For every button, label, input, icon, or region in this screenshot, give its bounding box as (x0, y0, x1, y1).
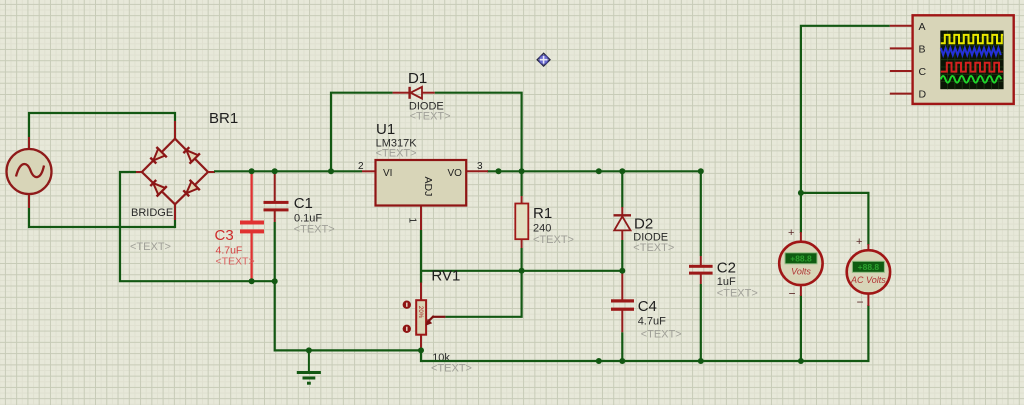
capacitor C1 (264, 171, 289, 281)
junction node rail a (596, 168, 602, 174)
diode D2 (614, 171, 632, 270)
diode D1 (393, 87, 435, 99)
wire bottom rail (421, 305, 868, 361)
junction bottom rail a (596, 358, 602, 364)
svg-text:VI: VI (383, 168, 392, 179)
svg-text:<TEXT>: <TEXT> (431, 363, 472, 375)
wire ADJ pin down (420, 230, 422, 283)
svg-text:−: − (789, 287, 796, 301)
bridge diode bottom-left (150, 180, 167, 197)
svg-text:<TEXT>: <TEXT> (294, 224, 335, 236)
wire D1 top rail left branch (331, 93, 393, 172)
svg-text:−: − (857, 295, 864, 309)
junction C2 bottom (698, 358, 704, 364)
svg-text:C: C (919, 66, 927, 78)
svg-text:1: 1 (407, 218, 418, 224)
svg-text:<TEXT>: <TEXT> (130, 241, 171, 253)
svg-text:<TEXT>: <TEXT> (216, 256, 255, 268)
junction D2 bottom (619, 268, 625, 274)
svg-text:B: B (919, 43, 926, 55)
svg-text:D2: D2 (634, 216, 653, 233)
svg-text:C3: C3 (215, 227, 234, 244)
svg-text:<TEXT>: <TEXT> (717, 288, 758, 300)
junction pot bottom (418, 347, 424, 353)
regulator U1 LM317K (362, 160, 488, 231)
svg-text:U1: U1 (376, 121, 395, 138)
wire bottom-left from source to bridge bottom (29, 194, 175, 227)
junction C4 bottom (619, 358, 625, 364)
svg-text:D: D (919, 89, 927, 101)
junction C2 corner (698, 168, 704, 174)
svg-text:2: 2 (358, 161, 364, 172)
wire top-left from source to bridge top (29, 113, 175, 150)
svg-text:+: + (856, 236, 862, 248)
origin marker (537, 53, 550, 66)
bridge diode top-left (150, 147, 167, 164)
svg-text:C2: C2 (717, 260, 736, 277)
bridge diode top-right (183, 147, 200, 164)
junction D2 top (619, 168, 625, 174)
svg-text:Volts: Volts (791, 267, 811, 277)
wire AC voltmeter branch (801, 193, 869, 245)
resistor R1 (515, 196, 528, 248)
svg-text:+88.8: +88.8 (790, 254, 812, 264)
ground symbol (297, 350, 321, 383)
wire wiper to adj rail (445, 271, 521, 317)
svg-text:RV1: RV1 (431, 268, 460, 285)
bridge diode bottom-right (183, 180, 200, 197)
svg-text:A: A (919, 21, 926, 33)
junction C1 bottom (272, 278, 278, 284)
junction D1 branch (328, 168, 334, 174)
AC source V1 (7, 137, 52, 208)
svg-text:<TEXT>: <TEXT> (376, 148, 417, 160)
capacitor C3 (highlighted) (240, 171, 264, 281)
oscilloscope (890, 15, 1014, 104)
AC voltmeter (847, 244, 890, 306)
junction meter branch (798, 190, 804, 196)
junction R1 top (519, 168, 525, 174)
wire R1 bottom to adj rail (520, 248, 522, 271)
svg-text:1uF: 1uF (717, 276, 736, 288)
svg-text:240: 240 (533, 223, 551, 235)
junction C3 top (249, 168, 255, 174)
wire voltmeter branch (800, 193, 802, 233)
junction voltmeter bottom (798, 358, 804, 364)
wire main output rail (214, 170, 362, 172)
svg-text:ADJ: ADJ (422, 177, 434, 197)
voltmeter DC (779, 232, 822, 296)
wire oscilloscope channel A (801, 26, 890, 193)
wire D1 top rail right branch (435, 93, 522, 196)
junction R1 bottom (519, 268, 525, 274)
svg-text:VO: VO (448, 168, 463, 179)
svg-text:3: 3 (477, 161, 483, 172)
svg-text:R1: R1 (533, 205, 552, 222)
capacitor C4 (611, 271, 634, 361)
wire adjust rail (421, 270, 622, 272)
svg-text:D1: D1 (408, 70, 427, 87)
junction C3 bottom (249, 278, 255, 284)
svg-text:C4: C4 (638, 298, 657, 315)
svg-text:<TEXT>: <TEXT> (633, 242, 674, 254)
capacitor C2 (689, 171, 713, 361)
svg-text:<TEXT>: <TEXT> (533, 234, 574, 246)
wire VO to D1 branch (487, 170, 701, 172)
svg-text:BRIDGE: BRIDGE (131, 207, 173, 219)
svg-text:C1: C1 (294, 195, 313, 212)
svg-text:20%: 20% (417, 306, 423, 319)
voltmeter bottom wire (800, 295, 802, 361)
svg-text:<TEXT>: <TEXT> (410, 111, 451, 123)
svg-text:BR1: BR1 (209, 110, 238, 127)
wire bridge left corner to bottom rail (120, 172, 275, 281)
potentiometer RV1 (403, 283, 446, 350)
svg-text:<TEXT>: <TEXT> (641, 329, 682, 341)
wire ground rail (275, 281, 421, 350)
svg-text:+: + (788, 227, 794, 239)
junction ground (306, 347, 312, 353)
junction VO node (496, 168, 502, 174)
svg-text:+88.8: +88.8 (858, 262, 880, 272)
bridge rectifier BR1 (134, 121, 215, 220)
junction C1 top (272, 168, 278, 174)
svg-text:AC Volts: AC Volts (850, 275, 886, 285)
svg-text:4.7uF: 4.7uF (638, 316, 666, 328)
